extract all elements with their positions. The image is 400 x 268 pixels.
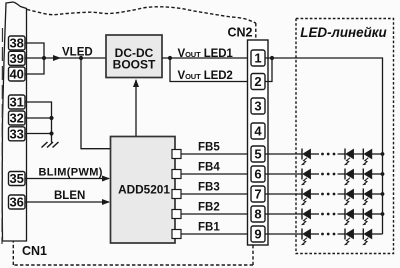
arrowhead BLIM	[102, 176, 110, 182]
wire FB3	[181, 193, 251, 195]
junction dot 33	[49, 131, 53, 135]
FB1 pin square	[172, 230, 181, 239]
LED row 1: led B	[338, 149, 364, 166]
wire pin33	[25, 133, 52, 135]
LED row 3: led B	[338, 189, 364, 206]
driver dashed boundary below CN2	[252, 245, 254, 265]
wire VOUT LED1 (DC-DC out to CN2 pin1)	[162, 57, 251, 59]
LED row 4: led B	[338, 209, 364, 226]
ground symbol	[42, 142, 59, 148]
wire FB4	[181, 173, 251, 175]
CN2 pin 6	[251, 166, 265, 182]
svg-text:FB1: FB1	[198, 222, 220, 234]
pin 38	[9, 36, 26, 50]
svg-text:FB3: FB3	[198, 182, 220, 194]
LED row 4 dots	[321, 213, 335, 216]
svg-text:38: 38	[9, 36, 23, 51]
wire ADD5201 to DC-DC (boost drive)	[135, 80, 137, 137]
pin 31	[9, 95, 26, 109]
LED row 1: led C	[362, 149, 382, 166]
LED row 5: led C	[362, 229, 382, 246]
wire FB1	[181, 233, 251, 235]
CN2 pin 3	[251, 98, 265, 114]
CN2 pin 2	[251, 74, 265, 90]
LED row 1 dots	[321, 153, 335, 156]
wire CN2 pin1 to LED anode bus	[265, 58, 383, 234]
svg-text:39: 39	[9, 51, 23, 66]
wire VOUT LED2 branch	[170, 58, 251, 82]
DC-DC BOOST converter U-block	[106, 35, 162, 78]
LED row 5 wire (CN2 pin9)	[265, 233, 302, 235]
arrowhead up into DC-DC	[133, 79, 139, 87]
junction dot row1/bus	[381, 152, 385, 156]
wire pin40 to bus	[25, 58, 44, 74]
CN2 pin 8	[251, 206, 265, 222]
pin 40	[9, 67, 26, 81]
pin 35	[9, 172, 26, 186]
svg-text:40: 40	[9, 67, 23, 82]
svg-text:32: 32	[9, 111, 23, 126]
svg-text:33: 33	[9, 126, 23, 141]
CN2 pin 1	[251, 50, 265, 66]
wire VLED (pin39 to DC-DC)	[25, 57, 106, 59]
LED driver IC ADD5201	[111, 137, 176, 244]
junction dot row3/bus	[381, 192, 385, 196]
svg-text:8: 8	[254, 207, 261, 222]
svg-text:1: 1	[254, 51, 261, 66]
CN2 pin 9	[251, 226, 265, 242]
driver dashed boundary left lower (below CN1)	[12, 241, 14, 265]
LED row 3: led C	[362, 189, 382, 206]
svg-text:LED-линейки: LED-линейки	[300, 25, 386, 40]
LED row 2 wire (CN2 pin6)	[265, 173, 302, 175]
svg-text:FB5: FB5	[198, 142, 220, 154]
LED row 4: led A	[301, 209, 319, 226]
driver dashed boundary right upper (to CN2 top)	[255, 23, 257, 40]
LED row 2: led A	[301, 169, 319, 186]
connector CN2 body	[248, 40, 269, 245]
arrowhead BLEN	[102, 199, 110, 205]
wire VLED branch down to ADD5201	[81, 58, 111, 149]
svg-text:BOOST: BOOST	[113, 58, 156, 72]
junction dot VOUT	[168, 56, 172, 60]
pin 39	[9, 51, 26, 65]
svg-text:9: 9	[254, 227, 261, 242]
LED row 1 wire (CN2 pin5)	[265, 153, 302, 155]
wire CN2 pin2 to junction	[265, 58, 272, 82]
junction dot 32	[49, 116, 53, 120]
driver dashed boundary bottom	[13, 264, 253, 266]
LED row 5 dots	[321, 233, 335, 236]
wire pin32	[25, 117, 52, 119]
wire pin31 to gnd bus	[25, 102, 52, 143]
svg-text:CN2: CN2	[227, 26, 252, 40]
wire FB2	[181, 213, 251, 215]
CN2 pin 5	[251, 146, 265, 162]
svg-text:6: 6	[254, 167, 261, 182]
FB5 pin square	[172, 150, 181, 159]
svg-text:35: 35	[9, 171, 23, 186]
LED row 1: led A	[301, 149, 319, 166]
LED row 4: led C	[362, 209, 382, 226]
connector CN1 body (torn top/left edge)	[2, 2, 26, 241]
svg-text:7: 7	[254, 187, 261, 202]
driver module dashed boundary: wavy top	[27, 7, 256, 23]
svg-text:2: 2	[254, 74, 261, 89]
svg-text:3: 3	[254, 99, 261, 114]
LED row 2: led B	[338, 169, 364, 186]
svg-text:CN1: CN1	[22, 244, 47, 258]
svg-text:FB2: FB2	[198, 202, 220, 214]
svg-text:5: 5	[254, 147, 261, 162]
svg-text:FB4: FB4	[198, 162, 220, 174]
LED strips dashed enclosure	[296, 19, 394, 254]
arrowhead VLED	[53, 55, 61, 61]
LED row 3: led A	[301, 189, 319, 206]
torn left page edge	[1, 28, 4, 244]
wire BLEN pin36 to ADD5201	[25, 201, 109, 203]
LED row 3 dots	[321, 193, 335, 196]
LED row 5: led B	[338, 229, 364, 246]
FB2 pin square	[172, 210, 181, 219]
pin 33	[9, 127, 26, 141]
svg-text:36: 36	[9, 195, 23, 210]
wire BLIM(PWM) pin35 to ADD5201	[25, 178, 109, 180]
junction dot row4/bus	[381, 212, 385, 216]
FB4 pin square	[172, 170, 181, 179]
svg-text:31: 31	[9, 95, 23, 110]
svg-text:VOUT LED2: VOUT LED2	[178, 70, 233, 82]
svg-text:BLEN: BLEN	[54, 190, 85, 202]
wire FB5	[181, 153, 251, 155]
LED row 2: led C	[362, 169, 382, 186]
LED row 2 dots	[321, 173, 335, 176]
CN2 pin 4	[251, 123, 265, 139]
wire pin38 to bus	[25, 43, 44, 58]
svg-text:BLIM(PWM): BLIM(PWM)	[39, 167, 103, 179]
LED row 5: led A	[301, 229, 319, 246]
junction dot row2/bus	[381, 172, 385, 176]
pin 36	[9, 195, 26, 209]
LED row 4 wire (CN2 pin8)	[265, 213, 302, 215]
pin 32	[9, 111, 26, 125]
junction dot pin1/pin2 tie	[270, 56, 274, 60]
svg-text:VLED: VLED	[62, 47, 93, 59]
svg-text:VOUT LED1: VOUT LED1	[178, 48, 234, 60]
svg-text:4: 4	[254, 124, 262, 139]
junction dot VLED branch	[79, 56, 83, 60]
junction dot 38/39/40 bus	[42, 56, 46, 60]
LED row 3 wire (CN2 pin7)	[265, 193, 302, 195]
FB3 pin square	[172, 190, 181, 199]
svg-text:ADD5201: ADD5201	[118, 183, 170, 197]
CN2 pin 7	[251, 186, 265, 202]
